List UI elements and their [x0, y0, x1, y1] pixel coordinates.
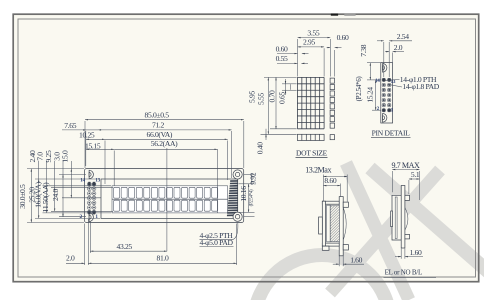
svg-text:10.16: 10.16 — [239, 186, 248, 202]
svg-text:5.95: 5.95 — [248, 91, 257, 103]
bottom ext lines — [85, 219, 237, 265]
horizontal centerline pins — [62, 197, 101, 199]
svg-text:14: 14 — [80, 177, 85, 183]
dim 43.25 — [90, 242, 167, 251]
sv1 ext lines — [323, 175, 347, 267]
sv1 backlight hatch — [330, 206, 339, 242]
svg-text:2.95: 2.95 — [303, 38, 315, 47]
svg-text:5.55: 5.55 — [257, 93, 266, 105]
dim 16.0(VA) vertical — [33, 152, 46, 213]
svg-text:EL or NO B/L: EL or NO B/L — [385, 269, 422, 277]
watermark shallow diagonal — [370, 168, 484, 275]
dim 2.95 — [298, 38, 325, 47]
svg-text:15.0: 15.0 — [61, 150, 70, 162]
sv1 bottom flange — [322, 243, 339, 246]
dim 13.2Max — [305, 165, 347, 176]
svg-text:0.65: 0.65 — [278, 92, 287, 104]
character cells row 1 — [114, 187, 218, 198]
sv1 bezel foot — [322, 246, 329, 250]
svg-text:14-φ1.8 PAD: 14-φ1.8 PAD — [402, 82, 439, 91]
watermark reverse diagonal — [330, 170, 440, 293]
sv1 bezel front — [322, 201, 325, 246]
dim 10.16 vertical right — [239, 184, 255, 213]
svg-text:2.0: 2.0 — [66, 254, 75, 263]
dim 0.40 — [256, 129, 267, 154]
label 4-phi5.0 PAD — [200, 238, 234, 247]
top edge black tab — [331, 14, 338, 16]
dim 81.0 — [88, 254, 236, 264]
label 14-phi1.8 PAD — [388, 82, 440, 91]
svg-text:0.60: 0.60 — [337, 33, 349, 42]
left ext lines — [27, 169, 113, 223]
label DOT SIZE — [296, 148, 328, 157]
dim 2.0 pin — [385, 43, 404, 52]
svg-text:1.60: 1.60 — [350, 255, 362, 264]
svg-text:0.60: 0.60 — [276, 44, 288, 53]
svg-text:2.54: 2.54 — [397, 32, 409, 41]
watermark steep diagonal — [346, 163, 409, 300]
sv1 top pin — [343, 202, 348, 207]
sv1 window bump — [319, 217, 323, 234]
label EL or NO B/L — [384, 269, 437, 278]
dim 0.55 dot width — [276, 54, 308, 63]
AA right extension — [216, 149, 218, 213]
svg-text:0.70: 0.70 — [268, 90, 277, 102]
sv2 PCB bar — [401, 186, 405, 249]
dim 5.55 — [257, 77, 277, 128]
svg-text:13.2Max: 13.2Max — [305, 165, 331, 174]
leader to mounting hole — [234, 223, 238, 240]
sv2 top pin — [405, 195, 410, 200]
svg-text:DOT SIZE: DOT SIZE — [296, 148, 328, 157]
svg-text:14: 14 — [375, 78, 380, 84]
dim 11.50(AA) vertical — [41, 150, 55, 212]
mounting hole top-right — [233, 170, 242, 179]
dim 10.25 — [79, 131, 105, 140]
sv1 dim 1.60 — [333, 255, 364, 264]
adjacent character row — [297, 134, 334, 140]
PCB outline — [85, 169, 244, 223]
pin detail ext lines — [367, 42, 393, 110]
dim 8.60 — [323, 176, 340, 185]
svg-text:30.0±0.5: 30.0±0.5 — [18, 184, 27, 209]
svg-text:8.60: 8.60 — [324, 176, 336, 185]
svg-text:0.40: 0.40 — [256, 142, 265, 154]
svg-text:13: 13 — [95, 177, 100, 183]
dim 3.55 — [298, 29, 331, 38]
svg-text:10.25: 10.25 — [79, 131, 95, 140]
dim 0.65 — [278, 84, 291, 104]
svg-text:85.0±0.5: 85.0±0.5 — [145, 110, 170, 119]
dim 0.70 — [268, 79, 286, 102]
zebra wedge shading — [227, 180, 238, 216]
mounting hole bottom-right — [233, 212, 242, 221]
dim 24.0 vertical — [51, 152, 63, 217]
svg-text:1.60: 1.60 — [410, 248, 422, 257]
svg-text:71.2: 71.2 — [152, 121, 164, 130]
dot grid ext lines — [261, 39, 335, 134]
character cells row 2 — [114, 200, 218, 211]
display window VA — [112, 186, 228, 213]
svg-text:43.25: 43.25 — [117, 242, 133, 251]
ext lines top — [85, 121, 244, 186]
svg-text:2.0: 2.0 — [394, 43, 403, 52]
dim 85.0±0.5 — [85, 110, 244, 119]
sv2 ext lines — [392, 171, 419, 259]
dim 5.1 — [409, 170, 420, 179]
dim 2.54 pin — [377, 32, 412, 41]
sv2 dim 1.60 — [395, 248, 423, 257]
sv2 glass wall — [395, 197, 397, 239]
label PIN DETAIL — [371, 129, 411, 138]
svg-text:24.0: 24.0 — [51, 189, 60, 201]
svg-text:4-φ5.0 PAD: 4-φ5.0 PAD — [200, 238, 234, 247]
svg-text:(P2.54*6): (P2.54*6) — [355, 76, 363, 102]
display row separator line — [112, 198, 228, 200]
adjacent character column — [330, 78, 334, 128]
sv1 PCB bar — [339, 197, 343, 256]
svg-text:0.55: 0.55 — [276, 54, 288, 63]
watermark arc — [254, 255, 390, 300]
svg-text:PIN DETAIL: PIN DETAIL — [372, 129, 411, 138]
mounting hole top-left — [89, 170, 93, 179]
dim 7.65 — [62, 121, 98, 130]
svg-text:9.92: 9.92 — [248, 172, 257, 184]
dim 66.0(VA) — [105, 130, 228, 139]
top edge gray tab — [344, 14, 355, 16]
dim 30.0±0.5 vertical — [18, 169, 31, 223]
bezel outline — [101, 179, 238, 218]
dim 71.2 — [98, 121, 232, 130]
pin strip outline — [381, 63, 393, 124]
dim 9.7 MAX — [392, 161, 420, 170]
svg-text:3.55: 3.55 — [307, 29, 319, 38]
svg-text:5.1: 5.1 — [411, 170, 420, 179]
sv1 top flange — [322, 201, 339, 204]
right ext lines — [239, 175, 255, 217]
dim 25.20 vertical — [28, 150, 39, 218]
dot matrix lattice 6x8 — [297, 77, 324, 128]
sv2 COB dome — [405, 208, 408, 230]
dim 15.15 — [85, 141, 114, 150]
dim 0.60 dot pitch — [276, 44, 309, 53]
dim 5.95 — [248, 77, 269, 134]
svg-text:9.7 MAX: 9.7 MAX — [392, 161, 420, 170]
dim 9.92 vertical right — [248, 172, 257, 184]
svg-text:(P2.54*4): (P2.54*4) — [250, 189, 255, 206]
sv1 bottom pin — [343, 245, 348, 250]
sv2 bezel box — [392, 195, 401, 240]
label 14-phi1.0 PTH — [386, 75, 438, 84]
dim 15.24 — [365, 80, 375, 110]
dim 15.0 vertical — [61, 150, 72, 198]
pin detail holes — [382, 78, 391, 112]
vertical centerline — [166, 148, 168, 251]
strip top pad — [383, 64, 387, 73]
dim 0.60 column gap — [327, 33, 349, 47]
pin holes 2x7 array — [87, 182, 96, 214]
svg-text:15.24: 15.24 — [365, 87, 374, 103]
svg-text:56.2(AA): 56.2(AA) — [151, 139, 178, 148]
sv1 glass wall — [327, 205, 331, 242]
sv2 bottom pin — [405, 234, 410, 239]
mounting hole bottom-left — [89, 213, 93, 222]
svg-text:7.65: 7.65 — [64, 121, 76, 130]
dim 7.38 — [359, 44, 370, 80]
dim 56.2(AA) — [114, 139, 217, 149]
sv2 window bump — [391, 211, 393, 227]
pin leader arrows — [88, 182, 95, 214]
strip bottom pad — [383, 114, 387, 123]
label 4-phi2.5 PTH — [200, 231, 234, 240]
svg-text:66.0(VA): 66.0(VA) — [147, 130, 173, 139]
svg-text:15.15: 15.15 — [85, 141, 101, 150]
sv1 COB dome — [343, 208, 346, 241]
svg-text:11.50(AA): 11.50(AA) — [41, 182, 50, 213]
svg-text:81.0: 81.0 — [157, 254, 169, 263]
svg-text:7.38: 7.38 — [359, 44, 368, 56]
dim 2.0 — [66, 254, 85, 264]
